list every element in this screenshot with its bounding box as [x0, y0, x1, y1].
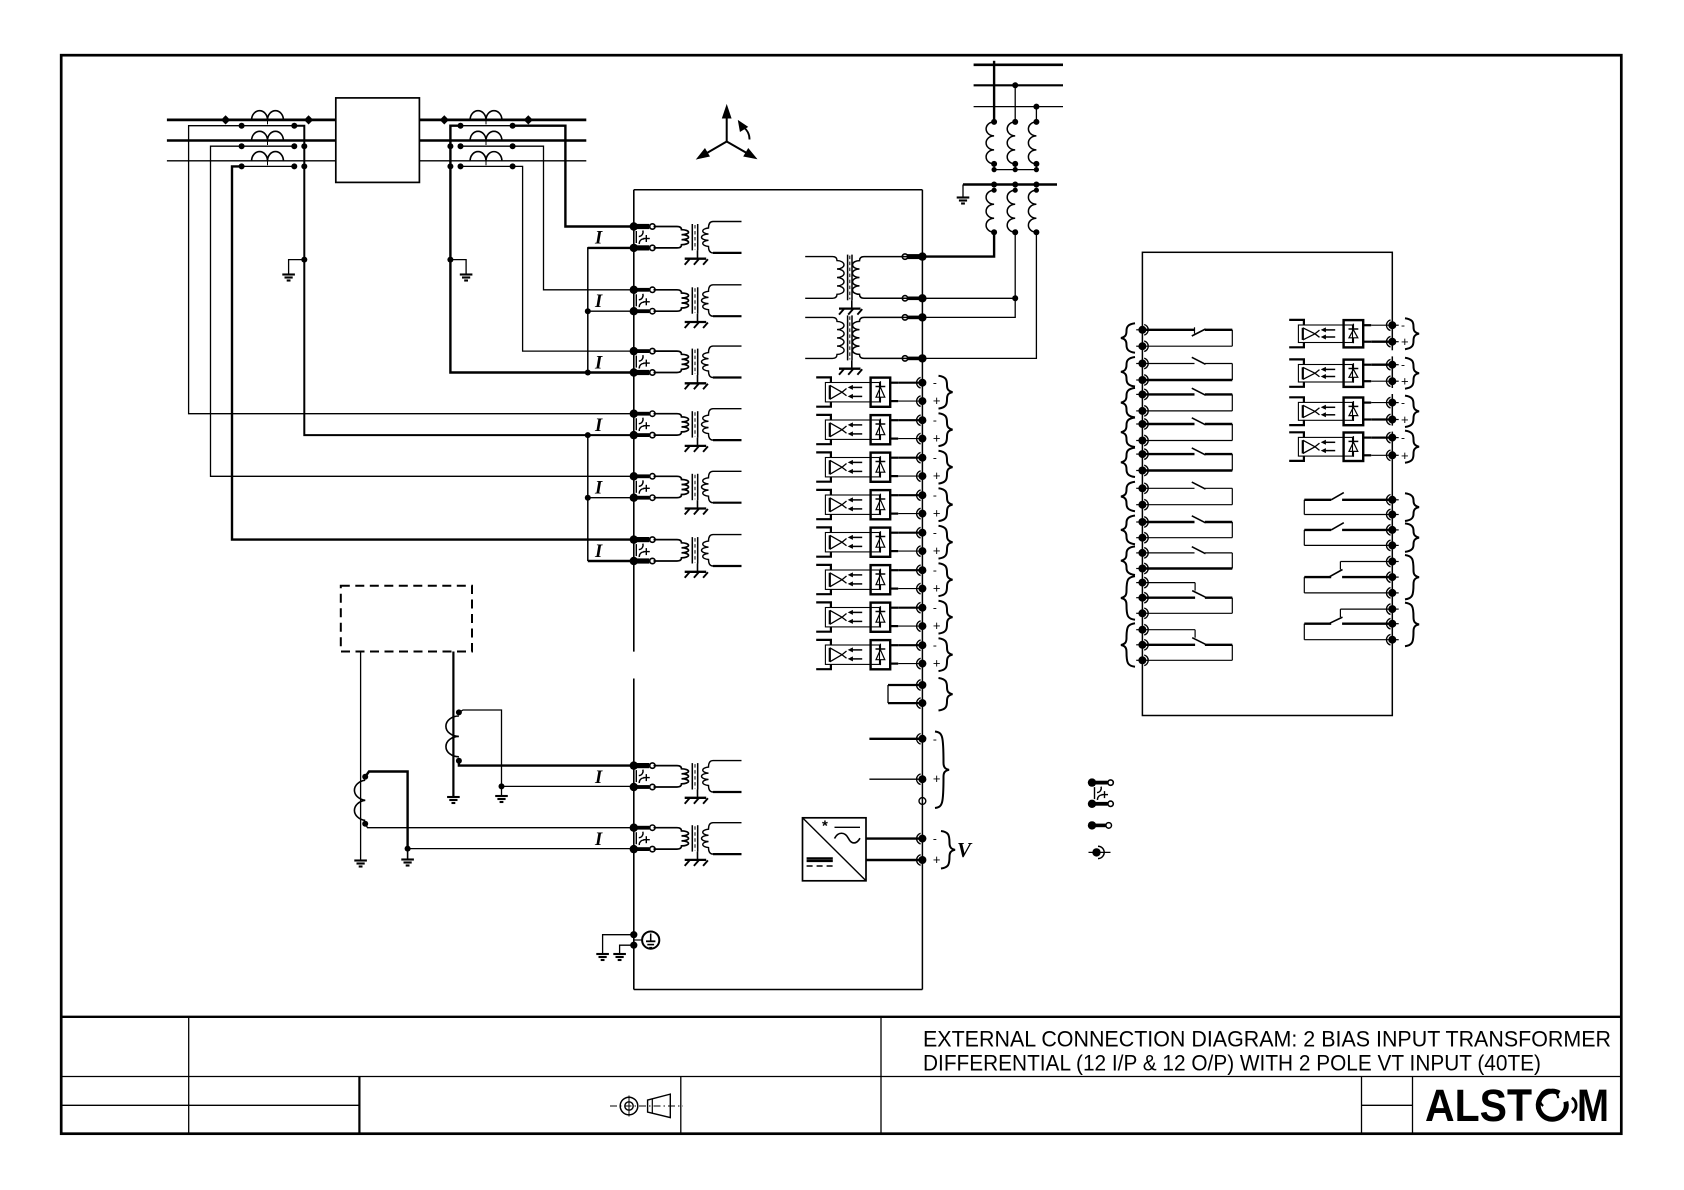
output contact RL11: [1342, 499, 1392, 501]
opto input PH1: [816, 377, 831, 382]
svg-text:+: +: [933, 656, 941, 671]
title block cell divider x=359: [358, 1077, 360, 1134]
input transformer TX4: [654, 414, 689, 435]
terminals RL7: [1136, 521, 1139, 523]
terminal PH7 -: [918, 604, 926, 612]
wire VT phase3 to relay V2-: [922, 232, 1036, 358]
wire relay I4-/I5-/I6- neutral link: [587, 435, 589, 561]
CT B3 (LV side L3): [470, 152, 502, 161]
svg-text:+: +: [933, 468, 941, 483]
junction CT A3 star: [301, 163, 307, 169]
legend: current test block symbol: [1088, 778, 1096, 786]
input transformer TX5: [654, 476, 689, 497]
svg-text:+: +: [933, 852, 941, 867]
wire CT B2 to relay input I2: [513, 146, 634, 290]
title block top rule: [61, 1016, 1621, 1018]
title block lower row rule left: [61, 1104, 359, 1106]
test block TB4 (input I4): [630, 410, 638, 418]
brace RL3: [1121, 388, 1135, 418]
earth VT secondary: [957, 196, 970, 198]
svg-text:I: I: [594, 229, 603, 249]
test block TB6 (input I6): [630, 535, 638, 543]
CT B2 (LV side L2): [470, 131, 502, 140]
svg-text:-: -: [933, 732, 937, 746]
wire PSU to V+ terminal: [866, 859, 922, 861]
svg-text:DIFFERENTIAL (12 I/P & 12 O/P): DIFFERENTIAL (12 I/P & 12 O/P) WITH 2 PO…: [923, 1051, 1541, 1076]
test block TB8 (input I8): [630, 824, 638, 832]
svg-text:I: I: [594, 830, 603, 850]
CT B1 secondary winding: [461, 125, 513, 127]
wire aux conductor B: [452, 652, 454, 797]
wire CT A star earth branch: [289, 260, 305, 274]
terminal PH8 -: [918, 641, 926, 649]
terminal PH4 +: [918, 510, 926, 518]
output relay case outline: [1142, 252, 1392, 715]
brace case earth loop: [939, 678, 953, 711]
wire aux CT B to I7+: [459, 761, 634, 766]
wire CT B star earth branch: [450, 260, 466, 274]
output contact RL5: [1142, 453, 1194, 455]
VT input transformer TV1: [852, 257, 907, 299]
CT A3 secondary winding: [242, 165, 295, 167]
test block TB3 (input I3): [630, 347, 638, 355]
phasor reference symbol: [697, 106, 756, 159]
legend: disconnectable terminal symbol: [1088, 821, 1096, 829]
wire I5- branch: [588, 497, 634, 499]
terminals RL4: [1136, 423, 1139, 425]
svg-text:-: -: [1401, 358, 1405, 372]
terminals RL2: [1136, 363, 1139, 365]
terminal PH1 -: [918, 379, 926, 387]
input transformer TX1: [654, 227, 689, 248]
output changeover contact RL10: [1142, 629, 1195, 631]
svg-text:+: +: [1401, 374, 1409, 389]
field supply terminal -: [869, 738, 922, 740]
title block lower row rule right: [1362, 1104, 1413, 1106]
CT B3 secondary winding: [461, 165, 513, 167]
VT input transformer TV2: [852, 317, 907, 358]
svg-text:I: I: [594, 292, 603, 312]
test block TB5 (input I5): [630, 472, 638, 480]
VT primary winding phase 2: [1012, 119, 1018, 125]
CT B1 (LV side L1): [470, 111, 502, 120]
VT primary tap phase 2: [1014, 85, 1016, 122]
output contact RL8: [1142, 552, 1194, 554]
title block cell divider x=1412: [1412, 1077, 1414, 1134]
wire PSU to V- terminal: [866, 837, 922, 839]
title block cell divider x=881: [880, 1017, 882, 1134]
VT secondary bus: [963, 183, 1057, 185]
brace PH3: [939, 451, 953, 484]
svg-text:*: *: [822, 818, 828, 835]
power supply unit: [803, 818, 867, 881]
CT A3 (HV side L3): [252, 152, 284, 161]
svg-text:-: -: [933, 488, 937, 502]
opto input PH4: [816, 490, 831, 495]
VT bus line 2: [974, 84, 1063, 86]
output contact RL7: [1142, 521, 1194, 523]
svg-text:-: -: [933, 413, 937, 427]
svg-text:EXTERNAL CONNECTION DIAGRAM: 2: EXTERNAL CONNECTION DIAGRAM: 2 BIAS INPU…: [923, 1027, 1611, 1052]
title block cell divider x=188: [188, 1017, 190, 1134]
terminals RL10: [1136, 629, 1139, 631]
earth CT A star: [282, 273, 295, 275]
field supply terminal +: [869, 778, 922, 780]
terminal PH10 +: [1388, 377, 1396, 385]
spare terminal: [919, 798, 926, 805]
earth CT B star: [460, 273, 473, 275]
opto input PH3: [816, 452, 831, 457]
relay case outline: [634, 189, 923, 191]
VT bus line 1: [974, 63, 1063, 66]
title block cell divider x=681: [680, 1077, 682, 1134]
terminal PH2 +: [918, 435, 926, 443]
wire CT A-group star point to relay common I4-: [294, 126, 634, 435]
brace PH4: [939, 488, 953, 521]
terminal PH5 -: [918, 529, 926, 537]
CT B2 secondary winding: [461, 145, 513, 147]
terminal V-: [918, 835, 926, 843]
terminal PH4 -: [918, 491, 926, 499]
earth conductor B: [447, 796, 460, 798]
output contact RL2: [1142, 363, 1194, 365]
terminal PH12 -: [1388, 434, 1396, 442]
terminals RL3: [1136, 393, 1139, 395]
svg-text:+: +: [1401, 448, 1409, 463]
test block TB1 (input I1): [630, 222, 638, 230]
brace RL7: [1121, 516, 1135, 545]
power transformer T1: [336, 98, 420, 182]
CT A1 secondary winding: [242, 125, 295, 127]
terminals RL9: [1136, 582, 1139, 584]
case earth loop terminals: [888, 684, 922, 686]
wire CT B3 to relay input I3: [513, 166, 634, 351]
svg-text:+: +: [1401, 412, 1409, 427]
aux equipment dashed box: [341, 586, 472, 652]
brace RL10: [1121, 623, 1135, 667]
terminal PH11 -: [1388, 399, 1396, 407]
brace RL5: [1121, 448, 1135, 477]
svg-text:-: -: [933, 638, 937, 652]
wire I2- branch: [588, 310, 634, 312]
VT secondary bus earth lead: [962, 185, 964, 197]
wire PE 2: [620, 945, 634, 953]
svg-text:-: -: [933, 526, 937, 540]
terminal PH1 +: [918, 397, 926, 405]
VT primary winding phase 1: [991, 119, 997, 125]
terminal PH12 +: [1388, 451, 1396, 459]
svg-text:-: -: [1401, 396, 1405, 410]
brace field supply: [935, 732, 949, 809]
svg-text:I: I: [594, 542, 603, 562]
terminal PH3 +: [918, 472, 926, 480]
svg-text:V: V: [957, 838, 973, 862]
earth conductor A: [354, 859, 367, 861]
svg-text:-: -: [1401, 431, 1405, 445]
first-angle projection symbol: [610, 1094, 683, 1118]
svg-text:I: I: [594, 768, 603, 788]
VT secondary winding phase 2: [1012, 182, 1018, 188]
svg-text:I: I: [594, 416, 603, 436]
brace RL6: [1121, 482, 1135, 511]
svg-text:+: +: [1401, 334, 1409, 349]
wire CT A1 to relay input I4: [189, 126, 634, 414]
terminal PH6 -: [918, 566, 926, 574]
svg-text:-: -: [933, 832, 937, 846]
brace RL1: [1121, 323, 1135, 352]
relay protective earth terminals: [630, 931, 637, 938]
svg-text:+: +: [933, 618, 941, 633]
output contact RL1: [1142, 329, 1194, 331]
wire CT A3 to relay input I6: [232, 166, 634, 539]
brace RL4: [1121, 418, 1135, 448]
terminal PH11 +: [1388, 416, 1396, 424]
terminals RL5: [1136, 453, 1139, 455]
wire aux CT B polarity to I7- via earth link: [459, 710, 634, 786]
terminal PH7 +: [918, 622, 926, 630]
CT A1 (HV side L1): [252, 111, 284, 120]
brace RL2: [1121, 357, 1135, 387]
opto input PH11: [1289, 397, 1304, 402]
VT primary tap phase 1: [993, 61, 995, 122]
terminal PH9 +: [1388, 338, 1396, 346]
VT bus line 3: [974, 106, 1063, 108]
svg-text:-: -: [933, 601, 937, 615]
terminal PH5 +: [918, 547, 926, 555]
input transformer TX6: [654, 540, 689, 561]
junction CT B2 star: [447, 143, 453, 149]
input transformer TX8: [654, 828, 689, 849]
test block TB2 (input I2): [630, 286, 638, 294]
svg-text:+: +: [933, 581, 941, 596]
brace RL8: [1121, 546, 1135, 575]
svg-text:-: -: [1401, 318, 1405, 332]
terminal PH3 -: [918, 454, 926, 462]
wire VT phase1 to relay V1+: [922, 232, 994, 256]
terminals RL1: [1136, 329, 1139, 331]
CT A2 (HV side L2): [252, 131, 284, 140]
earth PE 2: [613, 953, 626, 955]
brace PH6: [939, 563, 953, 596]
terminal PH9 -: [1388, 321, 1396, 329]
opto input PH8: [816, 640, 831, 645]
earth I7- link: [495, 795, 508, 797]
terminal PH10 -: [1388, 361, 1396, 369]
protective earth circle symbol: [634, 939, 642, 941]
opto input PH10: [1289, 359, 1304, 364]
VT primary star tie: [993, 164, 995, 170]
VT secondary winding phase 3: [1033, 182, 1039, 188]
input transformer TX3: [654, 351, 689, 372]
output changeover contact RL9: [1142, 582, 1195, 584]
svg-text:I: I: [594, 479, 603, 499]
terminals RL6: [1136, 487, 1139, 489]
CT A2 secondary winding: [242, 145, 295, 147]
svg-text:+: +: [933, 431, 941, 446]
output contact RL4: [1142, 423, 1194, 425]
terminal PH6 +: [918, 585, 926, 593]
brace PH7: [939, 601, 953, 634]
wire VT phase2 to relay V1-/V2+: [922, 232, 1015, 317]
svg-text:-: -: [933, 563, 937, 577]
opto input PH5: [816, 527, 831, 532]
output contact RL6: [1142, 487, 1194, 489]
earth I8- link: [401, 858, 414, 860]
wire CT A2 to relay input I5: [211, 146, 634, 476]
brace PH9: [1405, 318, 1419, 349]
HV phase line L1: [167, 119, 336, 122]
junction CT A2 star: [301, 143, 307, 149]
svg-text:-: -: [933, 451, 937, 465]
VT primary winding phase 3: [1033, 119, 1039, 125]
brace PH10: [1405, 358, 1419, 389]
junction CT B3 star: [447, 163, 453, 169]
zone marker diamonds on L1: [221, 115, 230, 124]
input transformer TX7: [654, 766, 689, 787]
VT secondary winding phase 1: [991, 182, 997, 188]
opto input PH12: [1289, 432, 1304, 437]
svg-text:M: M: [1577, 1080, 1609, 1131]
opto input PH9: [1289, 320, 1304, 325]
earth PE 1: [596, 953, 609, 955]
svg-text:+: +: [933, 771, 941, 786]
brace RL9: [1121, 576, 1135, 620]
svg-text:+: +: [933, 393, 941, 408]
opto input PH6: [816, 565, 831, 570]
terminals RL8: [1136, 552, 1139, 554]
brace V: [941, 831, 955, 869]
svg-text:+: +: [933, 543, 941, 558]
HV phase line L3: [167, 160, 336, 162]
legend: earthed terminal symbol: [1089, 851, 1111, 853]
title block row rule: [61, 1076, 1621, 1078]
output changeover contact RL13: [1340, 561, 1392, 563]
wire PE 1: [603, 935, 634, 953]
aux CT on conductor A: [354, 780, 365, 820]
test block TB7 (input I7): [630, 761, 638, 769]
aux CT on conductor B: [446, 716, 459, 757]
brace PH2: [939, 413, 953, 446]
wire CT B-group star point to relay common I3-: [450, 126, 633, 373]
ALSTOM logo: [1425, 1080, 1609, 1131]
title block cell divider x=1361: [1361, 1077, 1363, 1134]
opto input PH2: [816, 415, 831, 420]
HV phase line L2: [167, 139, 336, 141]
brace PH8: [939, 638, 953, 671]
junction I3- common: [585, 370, 591, 376]
wire aux CT A polarity to I8- via earth link: [365, 772, 634, 849]
svg-text:-: -: [933, 376, 937, 390]
output contact RL3: [1142, 393, 1194, 395]
svg-text:+: +: [933, 506, 941, 521]
wire CT B1 to relay input I1: [513, 126, 634, 227]
input transformer TX2: [654, 290, 689, 311]
wire aux CT A to I8+: [365, 824, 634, 828]
brace PH5: [939, 526, 953, 559]
brace PH1: [939, 376, 953, 409]
VT primary tap phase 3: [1035, 107, 1037, 122]
wire relay I1-/I2- neutral link: [588, 248, 634, 373]
svg-text:I: I: [594, 353, 603, 373]
svg-text:ALST: ALST: [1425, 1080, 1532, 1131]
terminal PH8 +: [918, 660, 926, 668]
terminal PH2 -: [918, 416, 926, 424]
opto input PH7: [816, 602, 831, 607]
wire aux conductor A: [360, 652, 362, 860]
terminal V+: [918, 856, 926, 864]
brace PH12: [1405, 431, 1419, 463]
brace PH11: [1405, 396, 1419, 427]
wire I6- branch: [588, 560, 634, 562]
